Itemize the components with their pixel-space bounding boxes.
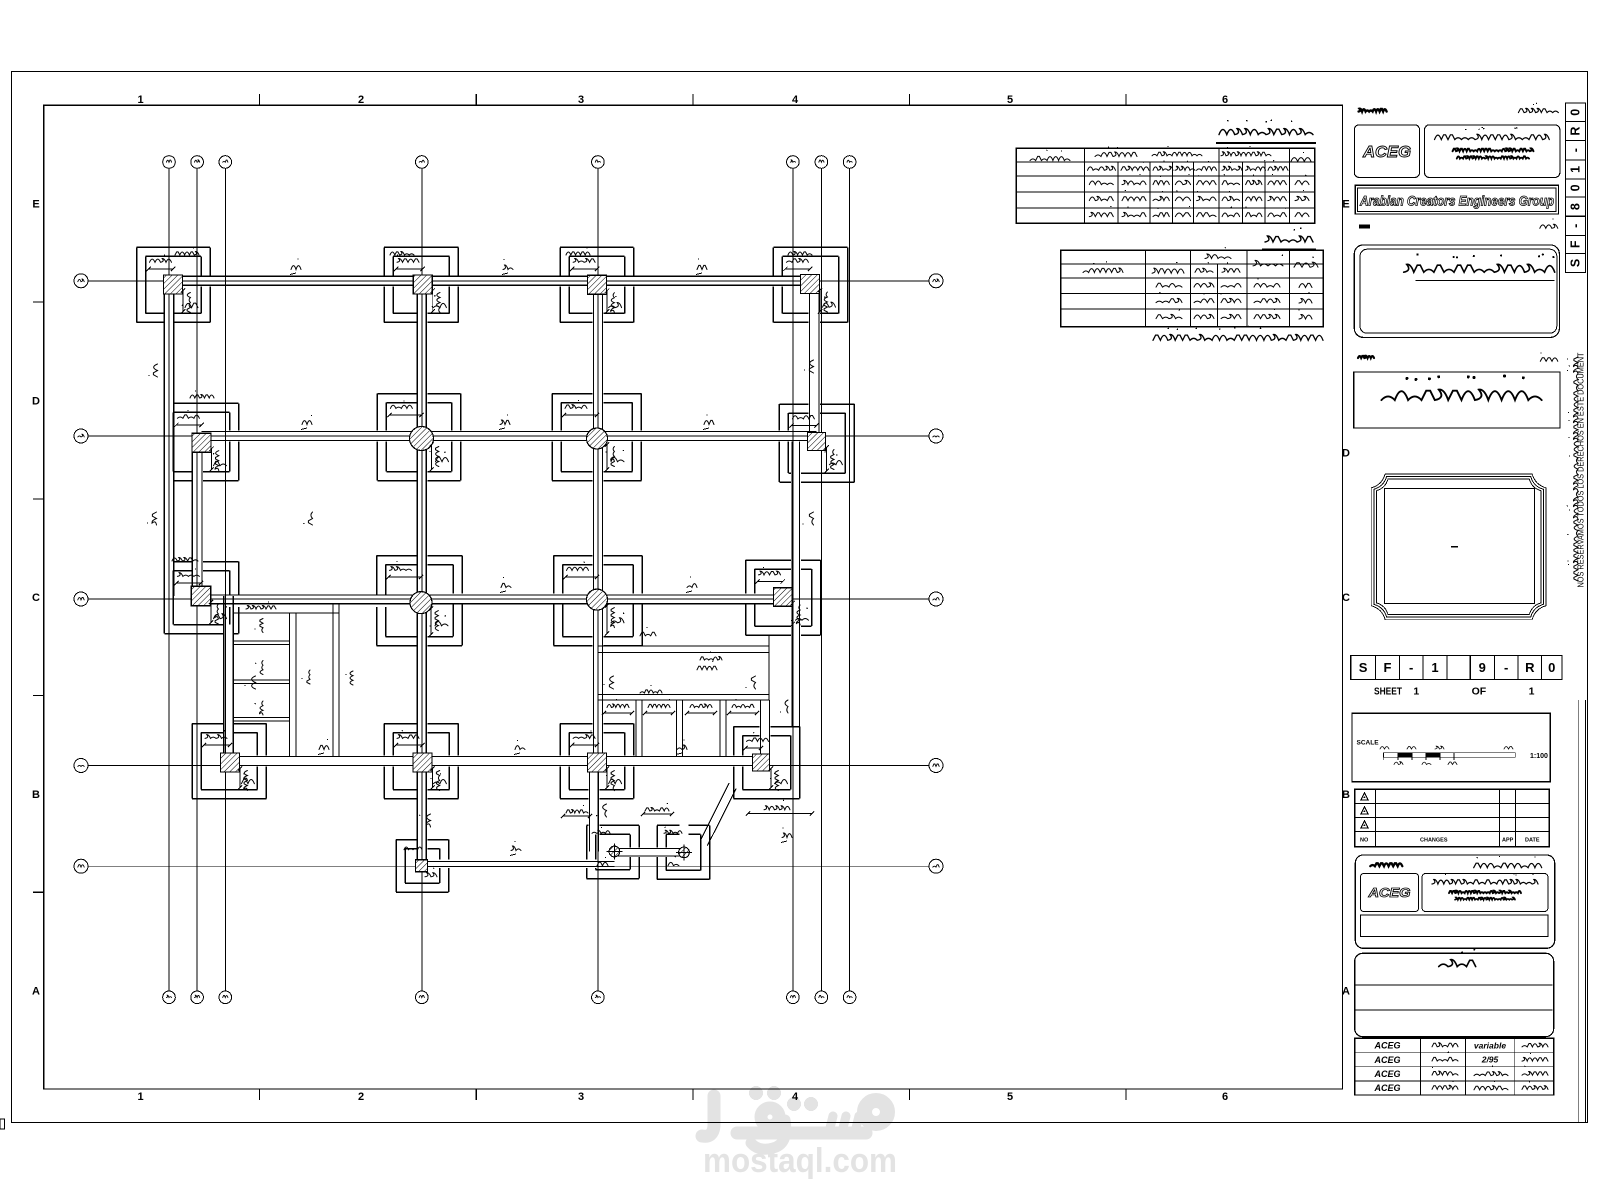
footing FE5 type label [609, 296, 622, 308]
footing FE5 side dimension [605, 289, 615, 314]
horizontal axis circle marks [78, 279, 939, 867]
footing FA4 outline [396, 840, 449, 893]
svg-text:-: - [1504, 660, 1508, 675]
footing FD5 type label [611, 450, 624, 462]
ruler numbers top [137, 94, 1228, 106]
svg-text:R: R [1525, 660, 1535, 675]
svg-text:D: D [1342, 448, 1350, 460]
footing FD4 outline [377, 394, 460, 481]
footing FB6 outline [734, 727, 800, 799]
svg-text:6: 6 [1222, 94, 1228, 106]
footing FB23 type label [241, 773, 254, 784]
footing FC5 type label [611, 613, 624, 623]
svg-text:1: 1 [137, 1091, 143, 1103]
footing FC6 top dimension [755, 567, 785, 584]
footing FB4 top dimension [394, 730, 425, 747]
table2 data [1156, 277, 1312, 319]
title block: owner box [1354, 245, 1559, 338]
scattered dimension texts [172, 246, 812, 693]
svg-text:E: E [32, 199, 39, 211]
svg-text:R: R [1569, 127, 1583, 136]
svg-text:5: 5 [1007, 94, 1013, 106]
footing FC12 top dimension [174, 568, 203, 585]
footing FC12 side dimension [209, 600, 219, 625]
svg-text:3: 3 [578, 1091, 584, 1103]
column of footing FE678 (hatched) [801, 275, 820, 294]
footing FE678 type label [823, 296, 836, 307]
footing FD12 type label [213, 453, 227, 466]
vertical ground beams axis 1 [164, 285, 174, 597]
svg-text:C: C [32, 592, 40, 604]
table1 header texts [1030, 146, 1311, 171]
vertical grid axes with circles [163, 156, 856, 1004]
beam labels [147, 258, 814, 855]
title block: revisions table [1355, 789, 1550, 846]
footing FC4 side dimension [429, 606, 439, 636]
small box at left bottom edge [0, 1119, 5, 1129]
diagonal ground beam to row A cluster [700, 783, 736, 846]
column of footing FD5 (hatched) [587, 428, 608, 449]
svg-text:S: S [1569, 259, 1583, 267]
footing FE678 outline [773, 247, 847, 322]
svg-text:1: 1 [137, 94, 143, 106]
footing FC5 outline [554, 556, 643, 646]
column of footing FA4 (hatched) [416, 860, 428, 872]
title block: ACEG logo box [1354, 125, 1419, 178]
column of footing FB6 (hatched) [753, 754, 770, 771]
svg-text:F: F [1384, 660, 1392, 675]
svg-text:ACEG: ACEG [1373, 1069, 1400, 1079]
footing FD12 top dimension [174, 410, 204, 427]
svg-text:D: D [32, 395, 40, 407]
right margin vertical disclaimer texts [1577, 352, 1586, 587]
footing FB4 outline [384, 724, 458, 799]
svg-text:1: 1 [1569, 166, 1583, 173]
svg-text:-: - [1569, 148, 1583, 152]
svg-text:APP: APP [1502, 838, 1514, 844]
vertical axis circle marks [166, 160, 852, 998]
svg-text:2/95: 2/95 [1481, 1055, 1499, 1065]
footing FD7 outline [779, 404, 854, 482]
title block: sheet code strip [1351, 656, 1562, 680]
svg-text:4: 4 [792, 94, 799, 106]
footing FC12 type label [214, 606, 228, 619]
svg-text:A: A [32, 986, 40, 998]
footing FB23 outline [192, 724, 266, 799]
footing FE4 outline [384, 247, 458, 322]
note under tables [1153, 326, 1323, 341]
title block: project label [1358, 353, 1558, 362]
footing FB23 side dimension [238, 766, 248, 790]
ground beams row A [422, 849, 685, 867]
footing FC6 outline [746, 560, 821, 635]
row A footing labels [404, 803, 682, 877]
footing FE4 top dimension [394, 254, 425, 271]
footing FE1 side dimension [181, 288, 191, 313]
title block: engineer box [1355, 855, 1554, 948]
svg-text:ACEG: ACEG [1373, 1083, 1400, 1093]
title block: general consultant labels [1359, 103, 1559, 113]
svg-text:0: 0 [1569, 109, 1583, 116]
svg-text:-: - [1409, 660, 1413, 675]
table: tie beam types title [1262, 227, 1316, 249]
footing FD7 top dimension [789, 411, 819, 428]
footing FC5 side dimension [605, 603, 615, 635]
footing FC6 type label [796, 608, 809, 621]
footing FD4 side dimension [429, 442, 439, 471]
svg-text:4: 4 [792, 1091, 799, 1103]
ground beams row D [202, 432, 817, 441]
footing FC6 side dimension [791, 601, 801, 626]
svg-text:OF: OF [1472, 686, 1487, 698]
svg-text:C: C [1342, 592, 1350, 604]
footing FB4 type label [433, 773, 446, 784]
table1 data [1089, 174, 1309, 217]
footing FD5 top dimension [562, 400, 599, 418]
svg-text:6: 6 [1222, 1091, 1228, 1103]
column of footing FC5 (hatched) [587, 589, 608, 610]
footing FB5 top dimension [570, 731, 599, 748]
footing FE5 top dimension [570, 254, 599, 271]
title block: info table [1355, 1037, 1554, 1095]
table: tie beams grid [1061, 250, 1324, 327]
column of footing FD7 (hatched) [808, 433, 826, 451]
stair area labels [255, 619, 354, 716]
table: footing reinforcement schedule grid [1016, 148, 1315, 223]
footing FC5 top dimension [563, 562, 599, 580]
table2 header texts [1083, 247, 1318, 273]
horizontal grid axes with circles [74, 274, 943, 873]
footing FB6 side dimension [769, 766, 779, 790]
footing FD12 side dimension [209, 447, 218, 472]
ruler ticks top and bottom [260, 94, 1126, 1100]
dimension line under footing FB6 [746, 800, 814, 816]
footing FD4 type label [436, 452, 449, 462]
footing FB5 type label [609, 773, 622, 784]
long tie beams mid right [599, 646, 770, 700]
svg-text:E: E [1342, 199, 1349, 211]
title block: drawing title box (tank) [1355, 949, 1554, 1037]
footing FE4 side dimension [431, 288, 441, 313]
svg-text:F: F [1569, 240, 1583, 248]
title block: company name box [1425, 125, 1560, 178]
footing FD7 side dimension [824, 445, 834, 473]
footing FC12 outline [164, 562, 238, 634]
column of footing FE1 (hatched) [164, 275, 183, 294]
vertical ground beam axes 6-7 upper [809, 284, 819, 442]
svg-text:NOS RESERVAMOS TODOS LOS DEREC: NOS RESERVAMOS TODOS LOS DERECHOS EN EST… [1577, 352, 1586, 587]
footing FE1 top dimension [146, 254, 175, 271]
column of footing FB5 (hatched) [588, 753, 607, 772]
svg-text:1:100: 1:100 [1530, 753, 1548, 760]
ground beams row E [173, 276, 810, 285]
cell dimension labels [602, 627, 788, 715]
footing FA5L outline [587, 825, 640, 878]
footing FB6 top dimension [743, 732, 768, 750]
column of footing FD12 (hatched) [192, 433, 211, 452]
svg-text:DATE: DATE [1525, 838, 1540, 844]
footing FE4 type label [433, 295, 446, 308]
vertical ground beam axis 2 offset [192, 443, 202, 596]
column of footing FB4 (hatched) [413, 753, 432, 772]
ruler numbers bottom [137, 1091, 1228, 1103]
svg-text:5: 5 [1007, 1091, 1013, 1103]
svg-text:-: - [1569, 224, 1583, 228]
svg-text:2: 2 [358, 94, 364, 106]
footing FD5 side dimension [605, 442, 615, 471]
ground beams row C [201, 595, 783, 613]
footing FB5 side dimension [605, 766, 615, 790]
vertical ground beams axis 4 [417, 285, 426, 866]
column of footing FB23 (hatched) [221, 753, 240, 772]
svg-text:9: 9 [1479, 660, 1486, 675]
svg-text:ACEG: ACEG [1367, 886, 1410, 900]
column of footing FA5R (hatched) [676, 845, 692, 861]
column of footing FC6 (hatched) [773, 588, 792, 607]
right margin vertical lines [1579, 700, 1586, 1123]
title block: location plan frame [1371, 474, 1546, 620]
stair area tie beams left [233, 604, 339, 756]
svg-text:S: S [1359, 660, 1368, 675]
footing FB4 side dimension [430, 766, 439, 790]
svg-text:0: 0 [1569, 184, 1583, 191]
svg-text:variable: variable [1474, 1041, 1506, 1051]
column of footing FC12 (hatched) [191, 586, 211, 606]
footing FE1 type label [185, 296, 198, 308]
footing FB6 type label [774, 773, 788, 784]
vertical ground beams axis 5 [590, 285, 603, 852]
footing FB5 outline [560, 724, 634, 799]
svg-text:SCALE: SCALE [1357, 740, 1380, 747]
column of footing FE4 (hatched) [413, 275, 432, 294]
svg-text:ACEG: ACEG [1373, 1041, 1400, 1051]
title block: scale box [1352, 713, 1550, 781]
svg-text:CHANGES: CHANGES [1420, 838, 1448, 844]
title block: project name box [1354, 372, 1560, 428]
svg-text:ACEG: ACEG [1373, 1055, 1400, 1065]
footing FD7 type label [829, 454, 842, 464]
svg-text:3: 3 [578, 94, 584, 106]
svg-text:Arabian Creators Engineers Gro: Arabian Creators Engineers Group [1359, 193, 1554, 209]
column of footing FD4 (hatched) [410, 427, 434, 451]
cell divider beams mid right [636, 700, 770, 757]
svg-text:mostaql.com: mostaql.com [703, 1142, 897, 1180]
footing FB23 top dimension [202, 730, 232, 747]
drawing area inner frame [44, 105, 1343, 1089]
footing FC4 top dimension [386, 561, 423, 579]
footing FE678 top dimension [783, 254, 812, 271]
ruler letters right margin [1342, 199, 1350, 998]
vertical ground beam stair left [224, 596, 234, 763]
footing FD4 top dimension [387, 400, 424, 417]
svg-text:0: 0 [1548, 660, 1555, 675]
svg-text:B: B [1342, 789, 1350, 801]
svg-text:ACEG: ACEG [1362, 144, 1411, 161]
footing FD5 outline [552, 394, 641, 481]
column of footing FC4 (hatched) [410, 592, 432, 614]
watermark mostaql arabic (under linework) [702, 1096, 888, 1149]
ground beams row B [230, 757, 761, 766]
title block: owner label [1359, 219, 1558, 229]
column of footing FA5L (hatched) [607, 844, 623, 860]
svg-text:8: 8 [1569, 203, 1583, 210]
svg-text:1: 1 [1529, 686, 1535, 698]
footing FC4 type label [435, 615, 448, 626]
title block: Arabian Creators banner [1355, 185, 1558, 214]
svg-text:2: 2 [358, 1091, 364, 1103]
svg-text:SHEET: SHEET [1374, 686, 1402, 698]
ruler ticks left margin [33, 302, 44, 892]
svg-text:1: 1 [1431, 660, 1438, 675]
title block: sheet no vertical strip [1565, 103, 1585, 272]
footing FD12 outline [164, 403, 238, 480]
table: footing reinforcement schedule title [1216, 120, 1316, 143]
column of footing FE5 (hatched) [588, 275, 607, 294]
ruler letters left margin [32, 199, 40, 998]
footing FE678 side dimension [818, 288, 828, 314]
footing FE1 outline [137, 247, 211, 322]
svg-text:B: B [32, 789, 40, 801]
footing FA5R outline [657, 825, 710, 879]
svg-text:1: 1 [1413, 686, 1419, 698]
title block: SHEET 1 OF 1 [1374, 686, 1535, 698]
svg-text:A: A [1342, 986, 1350, 998]
footing FC4 outline [377, 556, 463, 646]
svg-text:NO: NO [1360, 838, 1369, 844]
vertical ground beam right col lower [769, 442, 800, 727]
footing FE5 outline [560, 247, 634, 322]
